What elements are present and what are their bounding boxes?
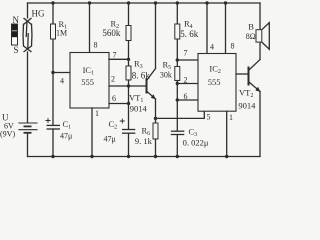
- svg-text:30k: 30k: [160, 71, 172, 80]
- wire pin 7 of IC1: [109, 51, 129, 60]
- resistor R4: [175, 1, 199, 60]
- wire pin 8 of IC2: [224, 1, 235, 53]
- svg-text:6: 6: [112, 94, 116, 103]
- wire pin 7 of IC2: [177, 49, 198, 61]
- svg-text:8Ω: 8Ω: [246, 32, 256, 41]
- svg-text:5. 6k: 5. 6k: [180, 29, 199, 39]
- wire pin 2 of IC1 to VT1 base: [109, 75, 146, 88]
- wire pin 6 of IC1: [109, 94, 130, 105]
- wire pin 4 of IC1: [53, 73, 70, 86]
- resistor R5: [160, 60, 180, 84]
- svg-text:4: 4: [210, 43, 214, 52]
- wire pin 2 of IC2: [176, 76, 198, 86]
- resistor R6: [135, 118, 158, 156]
- svg-text:560k: 560k: [102, 28, 121, 38]
- svg-text:2: 2: [111, 75, 115, 84]
- svg-text:6: 6: [184, 92, 188, 101]
- svg-text:8: 8: [94, 41, 98, 50]
- wire pin 1 of IC2: [225, 111, 233, 158]
- resistor R3: [126, 59, 150, 87]
- reed switch HG: [23, 9, 45, 53]
- wire top rail: [28, 2, 261, 4]
- svg-text:1M: 1M: [56, 29, 67, 38]
- svg-text:555: 555: [208, 77, 221, 87]
- svg-text:555: 555: [81, 77, 94, 87]
- node pin4 junction: [51, 71, 54, 74]
- wire pin 1 of IC1: [90, 108, 99, 158]
- svg-text:9. 1k: 9. 1k: [135, 136, 153, 146]
- op-amp IC2 555: [198, 54, 236, 112]
- svg-text:(9V): (9V): [0, 130, 15, 139]
- transistor VT2: [238, 60, 260, 111]
- capacitor C2: [104, 86, 136, 157]
- svg-text:0. 022μ: 0. 022μ: [183, 138, 209, 148]
- node VT1 emitter junction: [154, 117, 157, 120]
- wire pin 8 of IC1: [88, 1, 98, 52]
- capacitor C1: [46, 73, 73, 157]
- op-amp IC1 555: [70, 53, 109, 109]
- resistor R1: [51, 1, 68, 72]
- wire right column / VT2 collector & emitter: [259, 3, 261, 157]
- svg-text:8: 8: [231, 42, 235, 51]
- wire bottom rail: [28, 156, 261, 158]
- svg-text:4: 4: [60, 77, 64, 86]
- svg-text:1: 1: [229, 113, 233, 122]
- svg-text:S: S: [13, 45, 18, 55]
- svg-text:7: 7: [184, 49, 188, 58]
- magnet N/S: [12, 15, 20, 55]
- svg-text:9014: 9014: [130, 104, 148, 114]
- svg-text:N: N: [12, 15, 19, 25]
- wire pin 3 of IC2 to VT2 base: [236, 73, 248, 75]
- svg-text:7: 7: [113, 51, 117, 60]
- svg-text:1: 1: [95, 109, 99, 118]
- transistor VT1: [129, 1, 157, 118]
- node R4/R5/pin7 IC2: [176, 58, 179, 61]
- svg-text:9014: 9014: [238, 101, 256, 111]
- resistor R2: [102, 1, 131, 59]
- svg-text:47μ: 47μ: [104, 135, 116, 144]
- wire left column HG/battery: [27, 3, 29, 157]
- battery U: [0, 113, 38, 139]
- node R2/R3/pin7: [127, 58, 130, 61]
- wire emitter to pin 5 of IC2: [156, 111, 211, 121]
- svg-text:HG: HG: [32, 9, 45, 19]
- wire pin 6 of IC2: [176, 84, 198, 102]
- svg-text:B: B: [248, 21, 254, 31]
- speaker B: [246, 21, 269, 49]
- wire pin 4 of IC2: [205, 1, 214, 53]
- svg-text:5: 5: [207, 113, 211, 122]
- svg-text:2: 2: [184, 76, 188, 85]
- svg-text:47μ: 47μ: [60, 132, 72, 141]
- capacitor C3: [171, 100, 209, 157]
